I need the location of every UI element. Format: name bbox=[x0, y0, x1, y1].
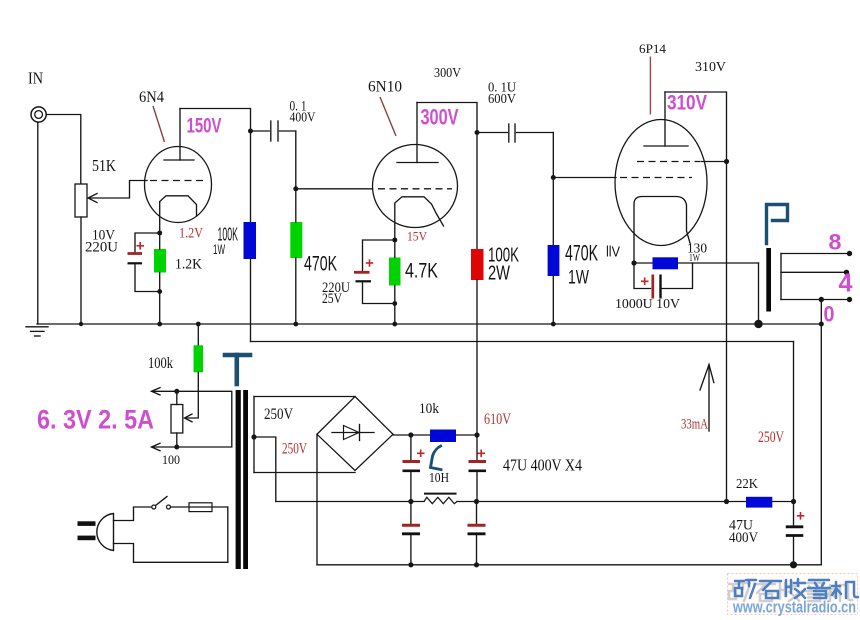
svg-text:www.crystalradio.cn: www.crystalradio.cn bbox=[732, 598, 856, 617]
mid rail bbox=[276, 501, 424, 503]
potentiometer VR2 100 hum balance bbox=[171, 405, 183, 434]
svg-text:47U 400V X4: 47U 400V X4 bbox=[503, 456, 582, 475]
capacitor C4 0.1U 600V coupling bbox=[477, 132, 507, 134]
capacitor C9 47U 400V (lower right) bbox=[476, 502, 478, 524]
fuse F1 bbox=[171, 506, 228, 508]
capacitor C6 47U 400V (upper left) bbox=[410, 435, 412, 460]
pointer line 6N10 bbox=[380, 97, 396, 136]
svg-text:250V: 250V bbox=[282, 441, 307, 458]
wire V3 plate to top rail and down right rail bbox=[665, 92, 727, 502]
svg-text:100k: 100k bbox=[148, 355, 173, 372]
wire 100k to wiper arrow bbox=[186, 372, 198, 418]
svg-text:1W: 1W bbox=[689, 252, 700, 264]
svg-text:2W: 2W bbox=[488, 263, 510, 285]
svg-text:0: 0 bbox=[824, 302, 835, 327]
V1 plate bbox=[164, 109, 194, 161]
resistor R2 1.2K (cathode) bbox=[154, 249, 166, 273]
svg-text:250V: 250V bbox=[758, 429, 784, 446]
resistor R7 470K 1W (grid leak V3) bbox=[548, 245, 560, 276]
wire center tap down to mid rail bbox=[254, 437, 276, 502]
power transformer label T bbox=[225, 355, 250, 384]
wire 100K bottom to 250V rail bbox=[250, 259, 252, 342]
plus sign C3 bbox=[366, 259, 373, 266]
resistor R8 130 1W (cathode) bbox=[634, 262, 653, 264]
svg-text:6N10: 6N10 bbox=[368, 79, 402, 96]
bridge rectifier diamond bbox=[317, 397, 393, 471]
node V2 grid junction bbox=[293, 186, 298, 191]
resistor R5 4.7K (cathode) bbox=[389, 258, 401, 286]
ground bus bbox=[37, 323, 821, 325]
svg-text:300V: 300V bbox=[434, 66, 461, 81]
V2 cathode bbox=[395, 197, 444, 240]
wire 250V rail down right side bbox=[793, 342, 795, 526]
svg-text:6P14: 6P14 bbox=[639, 41, 667, 56]
node plate-cap junction bbox=[248, 129, 253, 134]
V1 cathode bbox=[160, 196, 197, 233]
wire jack shell to ground bbox=[37, 122, 39, 324]
wire plug bottom lead bbox=[114, 544, 228, 563]
bridge diode symbol bbox=[332, 425, 374, 441]
bottom rail bbox=[317, 564, 821, 566]
plus sign C5 bbox=[641, 278, 649, 286]
V3 plate bbox=[644, 92, 688, 146]
svg-text:400V: 400V bbox=[729, 530, 758, 546]
svg-text:310V: 310V bbox=[667, 92, 707, 115]
svg-text:8: 8 bbox=[829, 230, 842, 255]
wire grid of V1 to pot wiper bbox=[90, 181, 147, 199]
tube V2 6N10 envelope bbox=[373, 145, 458, 228]
capacitor C1 220U 10V bypass bbox=[135, 233, 160, 252]
output transformer primary winding bar bbox=[766, 248, 771, 312]
pointer line 6N4 bbox=[153, 106, 165, 142]
secondary tap 8 bbox=[781, 253, 850, 255]
svg-text:610V: 610V bbox=[484, 411, 511, 428]
svg-text:300V: 300V bbox=[421, 105, 459, 130]
svg-text:10k: 10k bbox=[419, 401, 439, 417]
svg-text:220U: 220U bbox=[85, 240, 118, 256]
svg-text:1000U 10V: 1000U 10V bbox=[615, 297, 680, 312]
switch S1 bbox=[152, 505, 156, 509]
V1 grid (dashed) bbox=[150, 180, 206, 182]
svg-text:1W: 1W bbox=[213, 241, 225, 257]
svg-text:4.7K: 4.7K bbox=[405, 260, 438, 283]
HV secondary winding bbox=[253, 397, 255, 473]
V2 plate bbox=[397, 103, 438, 163]
node V2 cathode junction bbox=[392, 238, 397, 243]
resistor R6 100K 2W bbox=[471, 249, 484, 280]
mains plug bbox=[97, 514, 114, 551]
V3 control grid (dashed) bbox=[620, 177, 692, 179]
svg-text:22K: 22K bbox=[736, 477, 758, 492]
svg-text:51K: 51K bbox=[92, 156, 117, 175]
wire jack to grid column bbox=[46, 115, 80, 185]
capacitor C3 220U 25V bypass bbox=[363, 240, 395, 271]
resistor R4 470K (grid leak) bbox=[290, 222, 302, 258]
svg-text:6N4: 6N4 bbox=[139, 89, 164, 106]
wire plate rail to 100K column bbox=[180, 109, 251, 223]
capacitor C7 47U 400V (upper right) bbox=[476, 435, 478, 460]
svg-text:150V: 150V bbox=[187, 115, 222, 138]
svg-text:15V: 15V bbox=[407, 229, 428, 244]
heater winding bottom lead with arrow bbox=[174, 445, 179, 450]
resistor R9 100k (hum pot to ground) bbox=[196, 322, 201, 327]
svg-text:33mA: 33mA bbox=[681, 417, 708, 433]
svg-text:1.2K: 1.2K bbox=[175, 257, 202, 273]
input jack J1 bbox=[31, 107, 46, 122]
node V3 grid junction bbox=[551, 175, 556, 180]
capacitor C5 1000U 10V bypass bbox=[634, 263, 651, 289]
svg-text:4: 4 bbox=[839, 268, 854, 298]
capacitor C2 0.1 400V coupling bbox=[251, 130, 270, 132]
svg-text:470K: 470K bbox=[565, 241, 598, 266]
output transformer secondary bbox=[780, 254, 782, 300]
capacitor C8 47U 400V (lower left) bbox=[410, 502, 412, 524]
V3 screen grid (dashed) bbox=[637, 161, 700, 163]
svg-text:llV: llV bbox=[606, 244, 620, 261]
svg-text:25V: 25V bbox=[322, 291, 342, 307]
svg-text:470K: 470K bbox=[304, 253, 337, 276]
secondary tap 4 bbox=[781, 271, 847, 273]
svg-text:6. 3V 2. 5A: 6. 3V 2. 5A bbox=[37, 405, 154, 435]
tube V1 6N4 envelope bbox=[145, 147, 212, 223]
V2 grid (dashed) bbox=[378, 188, 452, 190]
primary winding bbox=[227, 507, 229, 562]
wire pot bottom to ground bus bbox=[80, 217, 82, 324]
wire 100K2W bottom to 610V node bbox=[476, 280, 478, 435]
wire V2 plate rail to 100K 2W column bbox=[417, 103, 477, 250]
heater winding 6.3V top lead with arrow bbox=[174, 389, 179, 394]
potentiometer VR1 51K bbox=[75, 184, 87, 217]
secondary tap 0 bbox=[781, 299, 850, 301]
resistor R10 10k bbox=[430, 430, 456, 443]
node plate-cap junction V2 bbox=[475, 130, 480, 135]
choke L1 10H bbox=[424, 497, 457, 503]
output transformer label P bbox=[767, 205, 788, 244]
current arrow 33mA bbox=[700, 365, 714, 432]
capacitor C10 47U 400V output bbox=[786, 525, 804, 528]
wire to V3 grid column bbox=[552, 133, 554, 246]
wire secondary bottom to bridge bbox=[254, 472, 355, 474]
pointer line 6P14 bbox=[649, 57, 651, 115]
choke label L bbox=[431, 446, 442, 470]
250V rail bbox=[251, 341, 794, 343]
wire plug top lead bbox=[114, 507, 152, 521]
wire bridge left corner to bottom rail bbox=[316, 434, 318, 565]
watermark box bbox=[728, 574, 858, 615]
svg-text:100: 100 bbox=[162, 452, 180, 467]
wire secondary top to bridge bbox=[254, 396, 355, 398]
svg-text:1.2V: 1.2V bbox=[179, 226, 203, 242]
B+ 610V line from bridge bbox=[393, 434, 430, 436]
resistor R3 100K 1W (plate load) bbox=[244, 222, 257, 259]
svg-text:1W: 1W bbox=[568, 268, 589, 289]
ground bbox=[26, 327, 48, 336]
svg-text:10H: 10H bbox=[429, 471, 449, 486]
wire coupling cap to V2 grid bbox=[295, 131, 297, 189]
node screen grid tap bbox=[724, 159, 729, 164]
tube V3 6P14 envelope bbox=[615, 120, 707, 246]
node V3 cathode junction bbox=[631, 260, 636, 265]
svg-text:IN: IN bbox=[28, 69, 43, 88]
node cathode junction bbox=[157, 231, 162, 236]
power transformer core bars bbox=[236, 390, 241, 569]
svg-text:250V: 250V bbox=[264, 406, 293, 423]
V3 cathode bbox=[634, 197, 690, 263]
wire tap 0 down right edge bbox=[820, 300, 822, 565]
svg-text:600V: 600V bbox=[488, 92, 516, 107]
svg-text:400V: 400V bbox=[290, 111, 316, 126]
plus sign C1 bbox=[137, 242, 145, 250]
heater winding 6.3V bbox=[177, 391, 232, 447]
svg-text:310V: 310V bbox=[695, 60, 726, 75]
resistor R11 22K bbox=[746, 497, 772, 508]
wire cathode to resistor to ground bbox=[159, 233, 161, 249]
